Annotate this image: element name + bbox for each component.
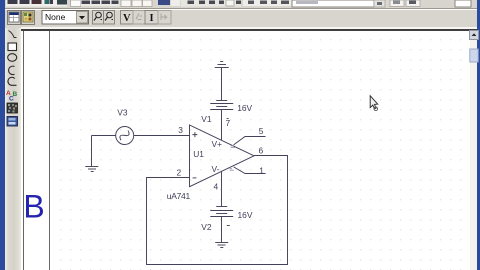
ground G2 (inverted): [220, 61, 223, 63]
op-amp plus sign: [192, 132, 197, 137]
svg-text:3: 3: [178, 125, 183, 135]
combobox None: [42, 11, 89, 25]
op-amp minus sign: [193, 177, 197, 179]
svg-text:2: 2: [177, 167, 182, 177]
button: disabled probe 2: [158, 11, 171, 25]
window right blue border: [477, 0, 480, 270]
tool: rectangle: [8, 43, 17, 51]
V1 polarity tick: [227, 118, 229, 120]
op-amp U1 triangle: [190, 125, 255, 187]
scrollbar thumb: [470, 49, 478, 62]
AC source V3 circle: [116, 127, 134, 145]
mouse cursor: [370, 96, 378, 111]
button: zoom in: [93, 11, 104, 25]
svg-text:4: 4: [214, 182, 219, 192]
tool: pie with tail: [8, 77, 17, 85]
canvas top dark border: [21, 27, 477, 29]
svg-text:5: 5: [259, 126, 264, 136]
top toolbar row 1 (cut-off slivers): [5, 0, 477, 8]
toolbar row 2: [5, 10, 477, 28]
wire V2 to ground below: [221, 217, 223, 243]
battery V2 plates: [216, 206, 227, 208]
wire pin2 feedback: left, down, bottom, up to output: [147, 156, 288, 265]
tool: arc: [9, 66, 15, 74]
battery V1 plates: [216, 100, 227, 102]
ground G1: [85, 166, 98, 168]
pin 4 wire: [221, 172, 223, 207]
pin 5 stub: [234, 137, 266, 145]
ground G3: [215, 242, 228, 244]
AC source V3 sine: [118, 129, 130, 142]
window left blue border: [0, 0, 5, 270]
grid dots: [55, 34, 469, 270]
tool: description box: [7, 117, 18, 127]
wire V3 right pin to op-amp pin 3: [134, 135, 190, 137]
wire V1 to ground above: [221, 68, 223, 101]
cut-off toolbar button slivers: [6, 0, 471, 7]
svg-text:uA741: uA741: [167, 191, 191, 201]
V2 polarity minus: [227, 225, 230, 227]
sheet frame line: [49, 31, 51, 270]
svg-text:1: 1: [259, 165, 264, 175]
svg-text:U1: U1: [193, 149, 204, 159]
scrollbar up button: [470, 31, 479, 40]
tool: line/arc: [9, 31, 17, 38]
svg-text:16V: 16V: [238, 210, 253, 220]
tool: ellipse: [8, 54, 17, 62]
svg-text:7: 7: [226, 118, 231, 128]
labels: [117, 103, 264, 232]
svg-text:6: 6: [259, 146, 264, 156]
tiny inside pin-name marks (gray): [230, 146, 236, 170]
svg-text:V1: V1: [201, 114, 212, 124]
pin 7 wire: [221, 110, 223, 141]
svg-text:V2: V2: [201, 222, 212, 232]
tool: picture (dithered): [7, 103, 18, 113]
svg-text:B: B: [23, 189, 44, 225]
left tool strip: [5, 28, 21, 270]
toolbar groove: [5, 8, 477, 9]
svg-text:16V: 16V: [237, 103, 252, 113]
wire corner down to ground: [91, 136, 93, 167]
svg-text:V3: V3: [117, 108, 128, 118]
button: I (current probe): [145, 11, 158, 25]
tool: text ABC: [6, 90, 18, 103]
svg-text:V-: V-: [212, 164, 220, 174]
button: disabled probe: [133, 11, 145, 25]
svg-text:V+: V+: [212, 139, 223, 149]
button: V (voltage probe): [121, 11, 134, 25]
sheet zone left line: [23, 31, 25, 270]
scrollbar: [470, 31, 477, 270]
button: component browser: [8, 11, 21, 25]
pin 1 stub: [234, 167, 266, 174]
wire V3 left pin to corner: [92, 135, 116, 137]
button: in-use list: [22, 11, 35, 25]
button: zoom out: [104, 11, 115, 25]
